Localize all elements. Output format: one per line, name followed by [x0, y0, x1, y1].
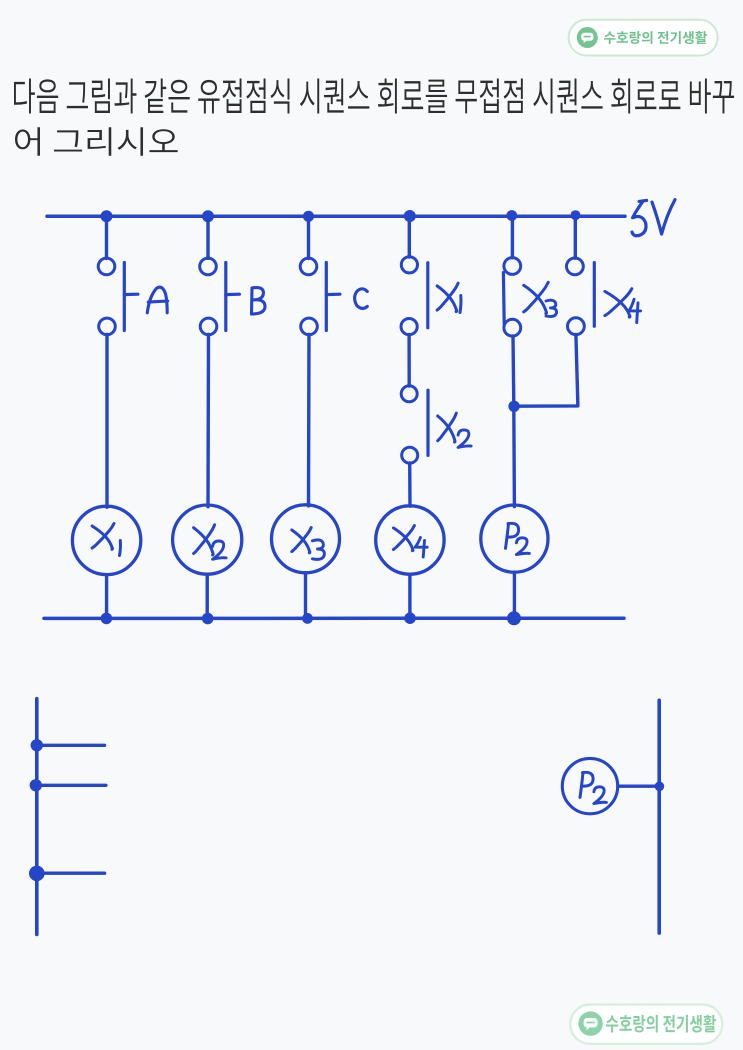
wire P2 to right rail — [618, 785, 659, 788]
node stub 1 — [31, 739, 43, 751]
wire C to coil X3 — [307, 334, 311, 506]
label C — [355, 289, 368, 309]
node bot X4 — [404, 612, 416, 624]
wire X2 to coil X4 — [408, 463, 412, 506]
node bus X4 — [571, 210, 581, 220]
contact X4 — [567, 215, 595, 334]
watermark badge bottom — [570, 1005, 722, 1044]
wire left rail (answer sketch) — [35, 699, 39, 935]
wire coil X1 to bottom bus — [105, 575, 108, 619]
node bus C — [303, 211, 314, 222]
wire stub 3 — [37, 872, 105, 875]
label A — [147, 287, 167, 313]
contact X1 — [401, 216, 428, 335]
label coil X2 — [194, 525, 227, 560]
node bot X3 — [302, 613, 313, 624]
wire X3 to node P — [511, 336, 515, 404]
node bus X1 — [404, 210, 416, 222]
label X1 — [437, 283, 461, 312]
label X2 — [438, 413, 471, 447]
wire coil X3 to bottom bus — [304, 573, 307, 619]
label B — [252, 288, 266, 314]
pushbutton A — [98, 216, 138, 334]
coil X1 — [72, 506, 140, 574]
node P junction — [508, 401, 519, 412]
title line 1 — [14, 79, 734, 114]
node bus B — [202, 210, 214, 222]
node stub 2 — [30, 779, 42, 791]
pushbutton B — [200, 216, 240, 334]
node stub 3 — [29, 866, 45, 882]
wire stub 1 — [37, 744, 105, 747]
wire X1 to X2 — [407, 335, 411, 387]
coil X3 — [272, 505, 340, 573]
wire coil X4 to bottom bus — [408, 574, 411, 618]
watermark badge top — [569, 20, 718, 56]
node bot X2 — [202, 613, 214, 625]
wire A to coil X1 — [105, 334, 108, 507]
wire stub 2 — [37, 784, 106, 787]
label P2 (answer sketch) — [580, 772, 606, 803]
node bus X3 — [506, 210, 517, 221]
node P2 rail — [655, 782, 665, 792]
label X4 — [605, 289, 641, 323]
label coil X1 — [92, 524, 120, 556]
coil X2 — [173, 505, 242, 574]
node bus A — [101, 210, 113, 222]
label 5V — [632, 200, 675, 236]
wire X4 branch to node P — [516, 334, 578, 406]
label coil X3 — [292, 528, 325, 560]
coil X4 — [376, 506, 444, 574]
wire coil X2 to bottom bus — [205, 574, 208, 618]
label coil P2 — [506, 523, 530, 554]
label coil X4 — [393, 526, 427, 558]
label X3 — [524, 282, 557, 316]
wire coil P2 to bottom bus — [513, 572, 516, 618]
title line 2 — [15, 127, 178, 156]
coil P2 — [481, 505, 548, 572]
contact X3 — [503, 216, 520, 337]
wire top 5V bus — [47, 215, 625, 219]
coil P2 (answer sketch) — [562, 758, 617, 813]
contact X2 — [401, 386, 428, 463]
node bot P2 — [507, 611, 521, 625]
wire right rail — [657, 700, 661, 933]
wire B to coil X2 — [206, 334, 210, 506]
wire bottom bus — [44, 616, 624, 620]
node bot X1 — [101, 613, 113, 625]
wire node P to coil P2 — [512, 406, 516, 506]
pushbutton C — [300, 216, 340, 334]
